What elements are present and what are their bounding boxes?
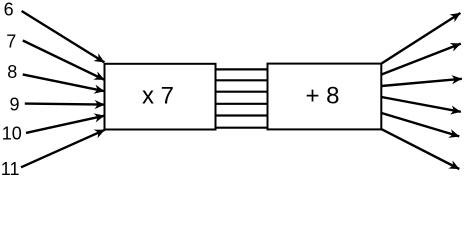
function box +8: [268, 64, 382, 130]
connector line 6: [216, 127, 268, 129]
svg-text:11: 11: [1, 159, 20, 178]
connector line 2: [216, 79, 268, 81]
output arrow 5: [382, 113, 460, 136]
input arrow from 8: [23, 74, 105, 91]
input arrow from 6: [22, 11, 105, 62]
output arrow 3: [382, 79, 462, 86]
function box x7: [105, 64, 216, 130]
svg-text:8: 8: [7, 62, 17, 82]
input arrow from 11: [21, 130, 105, 168]
svg-text:10: 10: [2, 124, 22, 144]
svg-text:7: 7: [6, 31, 16, 51]
output arrow 4: [382, 97, 461, 112]
svg-text:x 7: x 7: [142, 82, 174, 109]
input arrow from 10: [26, 116, 105, 133]
connector line 4: [216, 103, 268, 105]
connector line 3: [216, 91, 268, 93]
connector line 5: [216, 114, 268, 116]
output arrow 6: [382, 129, 460, 169]
connector line 1: [216, 68, 268, 70]
input arrow from 9: [25, 104, 105, 105]
output arrow 1: [382, 13, 461, 64]
input arrow from 7: [23, 41, 105, 80]
output arrow 2: [382, 44, 461, 75]
svg-text:6: 6: [4, 0, 14, 19]
svg-text:9: 9: [10, 95, 20, 115]
svg-text:+ 8: + 8: [305, 83, 339, 110]
